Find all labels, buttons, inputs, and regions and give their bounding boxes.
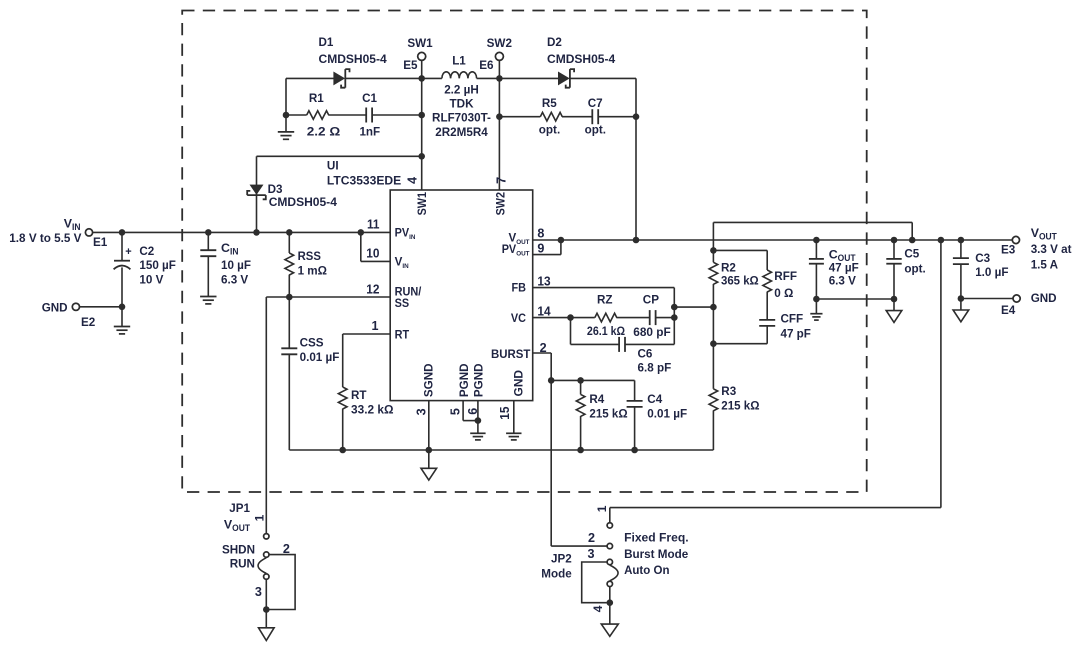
label RUN <box>230 557 255 571</box>
capacitor COUT <box>809 240 824 299</box>
terminal JP2 pin2 <box>607 543 612 548</box>
junction C1 right <box>418 112 425 119</box>
wire R1 C1 row <box>286 114 422 116</box>
wire JP1 pin3 down <box>265 580 267 628</box>
wire COUT to C5 gnd <box>816 298 894 300</box>
junction sense rail <box>909 237 916 244</box>
svg-text:3: 3 <box>255 585 262 599</box>
svg-text:C7: C7 <box>588 96 603 110</box>
svg-text:CSS: CSS <box>300 336 324 350</box>
label RZ <box>587 293 625 338</box>
wire FB to divider <box>674 306 713 308</box>
svg-text:3: 3 <box>415 408 429 415</box>
svg-text:2.2 Ω: 2.2 Ω <box>307 124 341 138</box>
svg-text:+: + <box>125 246 131 258</box>
svg-text:R3: R3 <box>721 384 736 398</box>
svg-text:E6: E6 <box>479 58 493 72</box>
label R5 <box>539 96 560 136</box>
svg-text:47 µF: 47 µF <box>829 260 859 274</box>
junction D2 rail <box>633 237 640 244</box>
svg-text:RT: RT <box>395 328 410 341</box>
junction CFF branch <box>710 340 717 347</box>
svg-text:8: 8 <box>537 226 544 240</box>
svg-text:GND: GND <box>42 301 68 315</box>
ground under GND15 <box>506 433 521 440</box>
pin number JP1-2 <box>283 542 290 556</box>
svg-text:VC: VC <box>511 312 527 325</box>
svg-text:2.2 µH: 2.2 µH <box>444 82 479 96</box>
pin name PGND5 <box>457 363 471 397</box>
svg-text:JP1: JP1 <box>229 501 250 515</box>
svg-text:SW1: SW1 <box>415 192 429 215</box>
pin number JP2-3 <box>587 547 594 561</box>
label E4 <box>1001 303 1015 317</box>
junction PGND <box>475 417 482 424</box>
junction CIN top <box>205 229 212 236</box>
svg-text:12: 12 <box>366 282 379 296</box>
svg-text:RSS: RSS <box>298 249 321 263</box>
svg-text:PGND: PGND <box>472 363 486 397</box>
capacitor CP <box>650 310 656 325</box>
diode D2 <box>558 69 574 88</box>
resistor RSS <box>285 232 294 297</box>
wire JP2 pin1 long <box>610 240 941 522</box>
svg-text:TDK: TDK <box>450 97 474 111</box>
label C4 <box>647 392 687 420</box>
wire L1 row <box>422 77 500 79</box>
junction COUT bottom <box>813 296 820 303</box>
wire D1 row <box>286 77 422 79</box>
svg-text:JP2: JP2 <box>551 552 572 566</box>
label R4 <box>589 392 627 420</box>
terminal E2 GND <box>72 303 79 310</box>
pin number 8 <box>537 226 544 240</box>
label D3 <box>268 182 337 209</box>
svg-text:215 kΩ: 215 kΩ <box>589 406 627 420</box>
svg-text:SW2: SW2 <box>487 36 512 50</box>
demo board dashed border <box>182 11 867 493</box>
wire VIN rail <box>92 231 390 233</box>
svg-text:1: 1 <box>595 505 609 512</box>
pin number 14 <box>537 305 550 319</box>
wire RT stub <box>343 334 391 387</box>
terminal E4 GND <box>1013 295 1020 302</box>
svg-text:SS: SS <box>395 297 410 310</box>
svg-text:5: 5 <box>449 408 463 415</box>
junction JP1 gnd <box>263 606 270 613</box>
label E3 <box>1001 243 1015 257</box>
terminal JP1 pin1 <box>264 534 269 539</box>
pin name RT <box>395 328 410 341</box>
label JP2 positions <box>624 531 689 577</box>
resistor RZ <box>595 313 617 322</box>
wire PVOUT stub <box>533 240 561 255</box>
capacitor C4 <box>627 380 643 450</box>
pin name FB <box>512 282 527 295</box>
label JP2 Mode <box>541 567 571 581</box>
wire D2 row <box>499 77 636 79</box>
label JP1 <box>229 501 250 515</box>
pin name PVIN <box>395 227 416 242</box>
label RFF <box>774 269 797 300</box>
svg-text:CP: CP <box>643 293 659 307</box>
op-amp U1 LTC3533EDE body <box>390 190 533 401</box>
capacitor CIN <box>200 232 216 296</box>
label E1 <box>93 235 107 249</box>
svg-text:2: 2 <box>588 531 595 545</box>
svg-text:10: 10 <box>366 246 379 260</box>
junction D3 rail <box>253 229 260 236</box>
ground under PGND <box>470 433 485 440</box>
label R3 <box>721 384 759 413</box>
ground under CIN <box>200 297 216 304</box>
wire R4 C4 top <box>551 379 634 381</box>
svg-text:FB: FB <box>512 282 527 295</box>
svg-text:SW2: SW2 <box>493 192 507 215</box>
svg-text:Auto On: Auto On <box>624 563 669 577</box>
svg-text:7: 7 <box>495 177 509 184</box>
label R1 <box>307 91 341 138</box>
ground C5 triangle <box>886 299 902 322</box>
wire SW1 vertical <box>421 60 423 190</box>
junction C2 bottom <box>119 304 126 311</box>
wire RFF top <box>713 250 767 270</box>
svg-text:R2: R2 <box>721 260 736 274</box>
ground JP2 triangle <box>601 624 618 636</box>
junction R2 top <box>710 247 717 254</box>
capacitor C1 <box>366 108 372 123</box>
jumper box JP2 <box>582 562 607 603</box>
svg-text:D1: D1 <box>319 35 334 49</box>
junction SW1 D1 <box>418 75 425 82</box>
junction FB branch <box>671 304 678 311</box>
svg-text:E3: E3 <box>1001 243 1015 257</box>
svg-text:C5: C5 <box>904 247 919 261</box>
pin number 1 <box>371 319 378 333</box>
pin number JP2-1 <box>595 505 609 512</box>
svg-text:1.5 A: 1.5 A <box>1031 258 1058 272</box>
junction COUT top <box>813 237 820 244</box>
label L1 value <box>432 82 491 139</box>
diode D1 <box>334 69 350 88</box>
label RT <box>351 388 394 417</box>
svg-text:6.3 V: 6.3 V <box>829 273 857 287</box>
svg-text:opt.: opt. <box>904 262 925 276</box>
svg-text:D3: D3 <box>268 182 283 196</box>
svg-text:15: 15 <box>498 407 512 420</box>
resistor RT <box>338 387 347 450</box>
svg-text:3: 3 <box>587 547 594 561</box>
pin name PGND6 <box>472 363 486 397</box>
junction C5 top <box>891 237 898 244</box>
pin number JP1-3 <box>255 585 262 599</box>
junction C4 bottom <box>631 447 638 454</box>
label C2 <box>139 244 176 286</box>
svg-text:4: 4 <box>406 177 420 184</box>
pin name RUN SS <box>395 286 422 311</box>
label VIN range <box>9 231 82 245</box>
pin number 5 <box>449 408 463 415</box>
svg-text:0.01 µF: 0.01 µF <box>647 406 687 420</box>
svg-text:R1: R1 <box>309 91 324 105</box>
wire D3 horizontal <box>257 155 422 157</box>
junction BURST <box>548 377 555 384</box>
wire JP2 pin4 down <box>609 587 611 624</box>
pin number JP2-2 <box>588 531 595 545</box>
svg-text:BURST: BURST <box>491 348 530 361</box>
label CP <box>633 293 671 340</box>
label C5 <box>904 247 925 276</box>
svg-text:C3: C3 <box>975 251 990 265</box>
label CFF <box>781 312 812 341</box>
svg-text:47 pF: 47 pF <box>781 327 812 341</box>
svg-text:4: 4 <box>591 605 605 612</box>
pin number JP2-4 <box>591 605 605 612</box>
svg-text:1.0 µF: 1.0 µF <box>975 265 1009 279</box>
terminal JP2 pin1 <box>607 523 612 528</box>
pin number JP1-1 <box>252 514 266 521</box>
resistor R5 <box>540 112 562 121</box>
svg-text:1: 1 <box>371 319 378 333</box>
junction JP2 wire rail <box>938 237 945 244</box>
svg-text:215 kΩ: 215 kΩ <box>721 398 759 412</box>
jumper box JP1 <box>266 555 295 610</box>
ground under R1 <box>278 115 294 139</box>
label C6 <box>638 347 672 375</box>
junction SW1 D3wire <box>418 153 425 160</box>
junction FB VC right <box>671 314 678 321</box>
junction RUN SS <box>286 294 293 301</box>
label L1 <box>452 54 466 68</box>
junction RT bottom <box>339 447 346 454</box>
svg-text:L1: L1 <box>452 54 466 68</box>
terminal E1 VIN <box>85 229 92 236</box>
svg-text:10 V: 10 V <box>139 272 164 286</box>
svg-text:RLF7030T-: RLF7030T- <box>432 111 491 125</box>
junction R1 left <box>283 112 290 119</box>
junction C2 top <box>119 229 126 236</box>
label E5 <box>403 58 417 72</box>
resistor R3 <box>709 389 718 411</box>
pin number 13 <box>537 274 550 288</box>
svg-text:E2: E2 <box>81 315 95 329</box>
pin number 15 <box>498 407 512 420</box>
pin name VC <box>511 312 527 325</box>
svg-text:CMDSH05-4: CMDSH05-4 <box>547 52 615 66</box>
wire GND pin15 <box>513 401 515 434</box>
svg-text:150 µF: 150 µF <box>139 258 176 272</box>
capacitor C5 <box>886 240 901 299</box>
svg-text:C6: C6 <box>638 347 653 361</box>
label C1 <box>359 91 380 138</box>
label VOUT terminal <box>1031 226 1058 242</box>
junction SGND bottom <box>426 447 433 454</box>
wire R5 C7 row <box>499 116 636 118</box>
pin name SW2 <box>493 192 507 215</box>
wire VOUT sense <box>713 222 912 240</box>
inductor L1 <box>442 72 477 79</box>
svg-text:CMDSH05-4: CMDSH05-4 <box>269 195 337 209</box>
terminal JP1 pin3 <box>264 574 269 579</box>
pin name BURST <box>491 348 530 361</box>
capacitor C6 <box>619 337 625 352</box>
pin number 10 <box>366 246 379 260</box>
svg-text:1 mΩ: 1 mΩ <box>298 263 327 277</box>
terminal SW2 <box>495 52 503 60</box>
pin name VIN <box>395 256 409 271</box>
ground under COUT <box>810 299 822 320</box>
svg-text:E1: E1 <box>93 235 107 249</box>
svg-text:PGND: PGND <box>457 363 471 397</box>
wire D1 anode drop <box>285 78 287 115</box>
pin number 2 burst <box>540 341 547 355</box>
svg-text:1: 1 <box>252 514 266 521</box>
label CIN <box>221 241 251 286</box>
junction SW2 L1 <box>496 75 503 82</box>
junction R4 top <box>577 377 584 384</box>
svg-text:680 pF: 680 pF <box>633 325 671 339</box>
svg-text:LTC3533EDE: LTC3533EDE <box>327 174 401 188</box>
svg-text:opt.: opt. <box>585 122 606 136</box>
svg-text:1.8 V to 5.5 V: 1.8 V to 5.5 V <box>9 231 82 245</box>
svg-text:CMDSH05-4: CMDSH05-4 <box>319 52 387 66</box>
wire JP1 drop <box>265 297 267 533</box>
junction R2 bottom <box>710 304 717 311</box>
svg-text:RUN: RUN <box>230 557 255 571</box>
svg-text:SGND: SGND <box>421 363 435 397</box>
wire CFF bottom <box>713 343 767 345</box>
svg-text:R5: R5 <box>542 96 557 110</box>
resistor R1 <box>307 111 329 120</box>
ground under C2 <box>114 307 130 334</box>
pin name PVOUT <box>502 243 531 258</box>
wire BURST stub <box>533 353 552 546</box>
junction C3 top <box>958 237 965 244</box>
pin number 9 <box>537 241 544 255</box>
svg-text:6.3 V: 6.3 V <box>221 272 249 286</box>
svg-text:C4: C4 <box>647 392 662 406</box>
svg-text:1nF: 1nF <box>359 124 380 138</box>
junction VOUT pin <box>558 237 565 244</box>
svg-text:26.1 kΩ: 26.1 kΩ <box>587 324 625 338</box>
junction R4 bottom <box>577 447 584 454</box>
label GND E4 <box>1031 291 1057 305</box>
pin name GND15 <box>512 370 526 397</box>
ground C3 triangle <box>953 299 969 322</box>
junction RZ left <box>567 314 574 321</box>
svg-text:R4: R4 <box>589 392 604 406</box>
resistor RFF <box>763 270 772 292</box>
wire FB <box>533 288 675 345</box>
jumper arc JP2 <box>610 565 618 581</box>
svg-text:Burst Mode: Burst Mode <box>624 547 688 561</box>
wire VOUT rail <box>533 239 1013 241</box>
capacitor CSS <box>281 297 297 450</box>
wire JP2 pin2 stub <box>551 545 607 547</box>
svg-text:SHDN: SHDN <box>222 542 255 556</box>
wire E2 to C2 <box>79 306 122 308</box>
junction C7 right <box>633 113 640 120</box>
wire bottom rail <box>289 449 713 451</box>
svg-text:GND: GND <box>1031 291 1057 305</box>
svg-text:11: 11 <box>367 218 380 232</box>
svg-text:Mode: Mode <box>541 567 571 581</box>
svg-text:C1: C1 <box>362 91 377 105</box>
label JP1 VOUT <box>224 518 251 534</box>
label CSS <box>300 336 340 364</box>
svg-text:RT: RT <box>351 388 367 402</box>
pin number 3 <box>415 408 429 415</box>
pin name SGND <box>421 363 435 397</box>
ground JP1 triangle <box>259 628 275 641</box>
label RSS <box>298 249 327 277</box>
wire C6 loop <box>571 318 675 345</box>
label SW2 terminal <box>487 36 512 50</box>
resistor R4 <box>576 380 585 450</box>
svg-text:9: 9 <box>537 241 544 255</box>
svg-text:Fixed Freq.: Fixed Freq. <box>624 531 689 545</box>
pin name VOUT <box>508 231 530 246</box>
svg-text:opt.: opt. <box>539 122 560 136</box>
svg-text:E5: E5 <box>403 58 417 72</box>
terminal JP2 pin4 <box>607 581 612 586</box>
label D2 <box>547 35 615 66</box>
svg-text:E4: E4 <box>1001 303 1015 317</box>
label E6 <box>479 58 493 72</box>
label C7 <box>585 96 606 136</box>
pin number 7 <box>495 177 509 184</box>
pin number 12 <box>366 282 379 296</box>
svg-text:0 Ω: 0 Ω <box>774 286 793 300</box>
capacitor C2 polarized <box>114 232 131 306</box>
label SHDN <box>222 542 255 556</box>
capacitor CFF <box>759 292 775 344</box>
svg-text:UI: UI <box>327 158 339 172</box>
resistor R2 <box>709 262 718 284</box>
junction C5 bottom <box>891 296 898 303</box>
wire C3 to E4 <box>961 298 1014 300</box>
label C2 plus <box>125 246 131 258</box>
wire R2 column <box>712 222 714 450</box>
svg-text:365 kΩ: 365 kΩ <box>721 274 759 288</box>
junction PVIN stub <box>358 229 365 236</box>
label UI refdes <box>327 158 401 187</box>
label SW1 terminal <box>407 36 432 50</box>
label C3 <box>975 251 1009 279</box>
svg-text:2R2M5R4: 2R2M5R4 <box>435 125 488 139</box>
pin number 11 <box>367 218 380 232</box>
terminal JP2 pin3 <box>607 559 612 564</box>
terminal E3 VOUT <box>1012 236 1019 243</box>
label GND E2 <box>42 301 68 315</box>
wire VC row <box>533 317 675 319</box>
diode D3 <box>247 185 266 199</box>
svg-text:SW1: SW1 <box>407 36 432 50</box>
label E2 <box>81 315 95 329</box>
terminal SW1 <box>418 52 426 60</box>
junction JP2 gnd <box>607 599 614 606</box>
junction R5 left <box>496 113 503 120</box>
label COUT <box>829 248 859 288</box>
wire SGND pin <box>428 401 430 450</box>
ground SGND triangle <box>421 450 437 480</box>
svg-text:D2: D2 <box>547 35 562 49</box>
label R2 <box>721 260 759 287</box>
pin name SW1 <box>415 192 429 215</box>
wire D3 vertical <box>256 156 258 232</box>
label VIN terminal <box>64 217 81 233</box>
wire D2 cathode drop <box>635 78 637 240</box>
